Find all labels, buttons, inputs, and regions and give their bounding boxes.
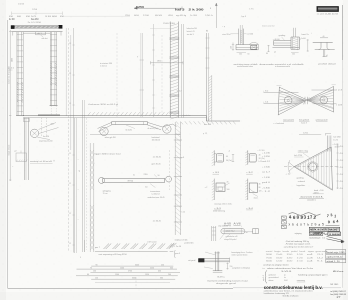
left column base plate bbox=[16, 115, 24, 117]
detail ZII-3 block bbox=[249, 154, 256, 162]
foundation chevron hatch bbox=[176, 121, 179, 124]
detail ZII-4 block bbox=[249, 183, 257, 192]
ladder row faint bbox=[95, 281, 170, 283]
bracket right dim line bbox=[307, 39, 309, 51]
right strip upper ticks bbox=[205, 37, 209, 39]
lens leader lines bbox=[220, 234, 224, 239]
detail ZII-4 wall line bbox=[247, 179, 249, 200]
assembly post top tick bbox=[214, 252, 220, 254]
laced column 2 chords bbox=[174, 122, 176, 235]
band big diagonals bbox=[98, 122, 112, 128]
sheet border right bbox=[341, 5, 343, 60]
bowtie right edge bbox=[333, 86, 335, 112]
assembly dim bbox=[227, 263, 229, 270]
detail ZII-1 dims bbox=[232, 154, 234, 162]
small marks on centre lines bbox=[140, 59, 145, 61]
T-section top line bbox=[313, 41, 333, 43]
top dimension line with arrow bbox=[134, 7, 182, 9]
grid line d tick labels bbox=[72, 44, 74, 46]
T-section stem bbox=[323, 50, 325, 57]
assembly foot bbox=[213, 270, 223, 272]
portal beam stud texture bbox=[14, 26, 17, 28]
cone bottom edge bbox=[294, 167, 332, 191]
bracket column box hatch bbox=[293, 38, 298, 40]
aansluiting column verticals bbox=[238, 29, 240, 45]
cone top edge bbox=[294, 147, 331, 167]
laced column chord lines bbox=[73, 118, 75, 253]
ligger bar bottom bbox=[103, 181, 165, 183]
assembly arm right tick bbox=[229, 258, 231, 263]
foundation beam second edge bbox=[23, 117, 207, 119]
laced column cross bracing lower bbox=[90, 205, 94, 210]
aansluiting column lacing bbox=[240, 30, 242, 32]
aansluiting dim line left bbox=[232, 43, 234, 51]
bracket column upper lines bbox=[292, 28, 294, 37]
bracket bottom dim bbox=[291, 51, 299, 53]
sheet border bottom bbox=[8, 287, 233, 289]
titleblock right box 3 bbox=[326, 259, 346, 262]
titleblock goedgekeurd box bbox=[309, 232, 323, 235]
handwritten undermark bbox=[326, 224, 340, 227]
corner leader lines bbox=[39, 123, 57, 130]
left column chords bbox=[16, 32, 18, 116]
titleblock date box bbox=[328, 232, 341, 235]
beam end stub left bbox=[12, 32, 14, 36]
bracket column box bbox=[290, 37, 292, 49]
centre vertical lines to band bbox=[140, 33, 142, 117]
grid line b dashed bbox=[67, 28, 69, 252]
right column weld hatch bbox=[51, 63, 52, 65]
ligger bar end caps bbox=[102, 178, 104, 182]
band leader texts bbox=[126, 125, 135, 129]
bowtie chord lower left bbox=[264, 103, 298, 105]
handwritten flourish bbox=[289, 213, 321, 216]
centre vertical dashed x117 bbox=[116, 33, 118, 117]
portal beam web line bbox=[12, 27, 63, 29]
cone right dim column bbox=[337, 144, 339, 190]
bowtie fan members right bbox=[309, 90, 334, 101]
grid line with arrow top right bbox=[215, 3, 217, 28]
anchor circle 3 bbox=[163, 125, 171, 133]
cone centre dashed axis bbox=[284, 166, 339, 168]
titleblock right box 1 bbox=[326, 250, 346, 254]
assembly cross post bbox=[215, 252, 217, 271]
aansluiting base plates bbox=[236, 44, 258, 46]
faint top rule bbox=[64, 15, 130, 17]
bowtie diagonal down bbox=[279, 87, 333, 112]
foundation slab hatch above bbox=[88, 112, 91, 115]
fold mark bbox=[135, 277, 137, 288]
lens dashed verticals bbox=[229, 226, 231, 229]
right column lacing rungs bbox=[50, 33, 56, 35]
foundation step right bbox=[207, 120, 241, 122]
detail ZII-3 wall line bbox=[247, 150, 249, 164]
right hatched strip bbox=[206, 33, 208, 121]
bowtie diagonal up bbox=[278, 86, 333, 114]
grid line c bbox=[70, 35, 72, 150]
laced column 2 ticks bbox=[174, 139, 182, 141]
assembly arm end plate bbox=[198, 258, 204, 262]
titleblock pointer arrow bbox=[327, 236, 344, 240]
cone apex marks bbox=[289, 162, 295, 167]
foundation beam top edge bbox=[23, 115, 207, 117]
sheet border left bbox=[7, 20, 9, 288]
aansluiting bottom dim bbox=[237, 52, 247, 54]
laced column 2 left line bbox=[168, 150, 170, 190]
detail ZII-1 block bbox=[217, 154, 224, 162]
grid line d bbox=[73, 28, 75, 253]
bracket beam left bbox=[274, 40, 292, 42]
bowtie bolt circle right bbox=[320, 96, 328, 104]
wall top faint line bbox=[150, 28, 170, 30]
bowtie fan members left bbox=[280, 91, 305, 101]
left column lacing rungs bbox=[17, 33, 23, 35]
band bottom edge bbox=[90, 133, 180, 135]
T-section cap dim bbox=[320, 37, 328, 39]
small elevation marker left bbox=[16, 153, 27, 162]
ligger left circle bbox=[99, 177, 105, 183]
aansluiting right leader bbox=[244, 33, 247, 35]
assembly slotted plate bbox=[221, 229, 245, 234]
grid line a bbox=[65, 28, 67, 116]
aansluiting block with cross bbox=[251, 45, 257, 49]
portal beam top flange bbox=[12, 25, 63, 27]
left column weld hatch bbox=[17, 82, 18, 84]
bowtie left edge bbox=[278, 87, 279, 115]
small stub detail lines bbox=[326, 136, 328, 152]
corner column lines bbox=[23, 118, 25, 180]
ladder rows bbox=[91, 265, 173, 267]
ligger right circle bbox=[166, 176, 172, 182]
wall column right edge bbox=[177, 22, 179, 118]
bowtie bolt circle left bbox=[284, 97, 292, 105]
cone right edge bbox=[331, 147, 332, 190]
wall column inner pair bbox=[181, 24, 183, 118]
chevron row bbox=[104, 244, 110, 250]
bracket left dims bbox=[268, 45, 270, 52]
cone bolt circle bbox=[309, 163, 317, 171]
bowtie corner ticks bbox=[277, 85, 282, 87]
titleblock merk box bbox=[309, 227, 339, 231]
wall left line ticks bbox=[152, 34, 154, 36]
cone inner edges bbox=[296, 148, 332, 167]
scan streaks bbox=[0, 0, 6, 300]
ligger below leader bbox=[150, 184, 155, 188]
right column base plate bbox=[50, 105, 58, 107]
portal beam bottom flange bbox=[12, 31, 63, 33]
chevron underline bbox=[95, 251, 168, 253]
detail ZII-2 leader bbox=[225, 183, 229, 186]
detail ZII-2 wall line bbox=[213, 179, 215, 200]
wall mid dimension line bbox=[151, 62, 184, 64]
titleblock right box 2 bbox=[326, 254, 346, 258]
beam inner flange line bbox=[23, 32, 50, 34]
bowtie chord lower right bbox=[313, 103, 337, 105]
detail ZII-2 block bbox=[216, 183, 225, 191]
bowtie chord upper right bbox=[312, 89, 337, 91]
wall column cross bands bbox=[169, 37, 179, 39]
corner top bracket bbox=[24, 118, 30, 122]
laced column cross bracing upper bbox=[90, 150, 94, 155]
assembly leaders bbox=[205, 252, 216, 255]
left strip bottom marks bbox=[84, 240, 86, 252]
T-section webs bbox=[319, 42, 321, 49]
anchor circle 2 bbox=[100, 127, 108, 135]
anchor circle 1 bbox=[30, 129, 38, 137]
handwritten left glyph column bbox=[282, 216, 287, 219]
right column chords bbox=[49, 32, 51, 106]
titleblock curly brace bbox=[265, 270, 267, 283]
detail ZII-1 wall line bbox=[213, 150, 215, 165]
bracket lower line bbox=[273, 47, 300, 49]
right column base dashes bbox=[50, 106, 52, 116]
assembly left post bbox=[211, 226, 213, 241]
corner stamp block bbox=[317, 6, 339, 11]
dimension line above beam bbox=[12, 12, 63, 14]
left dimension line bbox=[9, 30, 11, 181]
bowtie inner chords bbox=[279, 91, 305, 101]
laced column 2 lacing bbox=[175, 124, 180, 128]
aansluiting left leader bbox=[231, 33, 238, 35]
dim under bowtie bbox=[299, 133, 321, 135]
anchor strip plan bbox=[112, 121, 148, 123]
assembly end block bbox=[253, 229, 259, 234]
bowtie chord upper left bbox=[264, 91, 299, 93]
foundation beam dark segment bbox=[38, 114, 60, 116]
cone hexagon bbox=[308, 161, 318, 172]
ligger bar top bbox=[103, 177, 165, 179]
wall column left edge bbox=[169, 22, 171, 118]
beam end plate left bbox=[11, 25, 15, 29]
beam centre bracket bbox=[35, 32, 37, 35]
bowtie centre splice bbox=[304, 97, 306, 104]
assembly cross arm bbox=[199, 258, 230, 260]
T-section base bbox=[323, 56, 328, 58]
cone vertical ribs bbox=[297, 165, 299, 170]
beam end stub right bbox=[60, 32, 62, 36]
corner dashed bolts bbox=[41, 118, 43, 136]
beam end plate right bbox=[59, 25, 63, 29]
wall column hatch bbox=[170, 24, 178, 27]
aansluiting dome arc bbox=[249, 42, 258, 44]
T-section bottom line bbox=[315, 49, 335, 51]
